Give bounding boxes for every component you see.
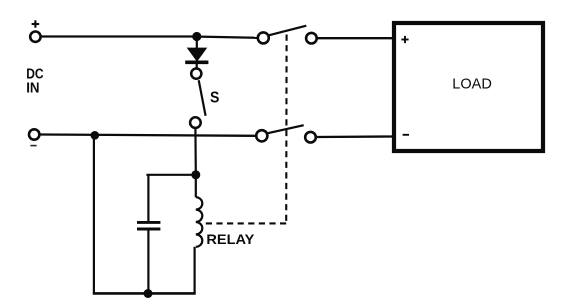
wire from switch S through bottom rail down to relay junction <box>194 128 197 172</box>
svg-text:LOAD: LOAD <box>452 76 492 93</box>
relay coil <box>195 176 203 293</box>
wire capacitor branch lower <box>147 230 149 293</box>
relay contact K2 (bottom) <box>256 125 316 142</box>
svg-text:RELAY: RELAY <box>206 231 255 247</box>
label DC IN <box>26 67 44 97</box>
dashed mechanical link horizontal to relay <box>204 222 286 224</box>
junction dot bottom return rail <box>144 289 153 298</box>
plus sign at + terminal <box>32 20 40 27</box>
terminal circle + (DC input positive) <box>30 32 40 42</box>
wire left vertical from bottom rail junction down <box>93 137 95 294</box>
minus sign inside load box <box>403 134 409 136</box>
wire top rail from junction to relay contact K1 <box>199 37 257 38</box>
svg-text:IN: IN <box>26 81 39 97</box>
junction dot at diode anode <box>192 32 201 41</box>
minus sign at - terminal <box>30 145 36 147</box>
svg-text:S: S <box>210 90 219 107</box>
junction dot relay branch <box>191 170 200 179</box>
wire junction to capacitor branch <box>146 174 194 176</box>
wire capacitor branch upper <box>147 175 149 222</box>
dashed mechanical link vertical <box>285 35 287 224</box>
wire bottom rail from - terminal to relay contact K2 <box>40 135 256 136</box>
junction dot bottom rail left <box>91 131 100 140</box>
switch S <box>190 69 206 128</box>
plus sign inside load box <box>401 36 408 43</box>
relay contact K1 (top) <box>258 26 317 44</box>
capacitor <box>137 222 160 229</box>
wire bottom return rail <box>93 292 196 295</box>
wire bottom rail from contact K2 to load <box>316 135 393 138</box>
diode (anode to switch S) <box>185 38 208 68</box>
wire top rail from + terminal to diode junction <box>41 35 195 37</box>
load box <box>394 23 543 151</box>
wire top rail from contact K1 to load <box>317 37 393 39</box>
terminal circle - (DC input negative) <box>29 129 39 139</box>
